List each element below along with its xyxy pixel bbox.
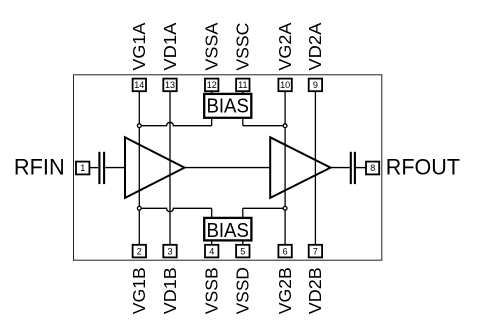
svg-text:11: 11 — [238, 80, 247, 90]
svg-text:1: 1 — [80, 163, 85, 173]
svg-text:VG1B: VG1B — [129, 267, 149, 314]
svg-text:7: 7 — [313, 246, 318, 256]
svg-text:2: 2 — [137, 246, 142, 256]
svg-text:RFIN: RFIN — [14, 155, 65, 180]
svg-text:3: 3 — [167, 246, 172, 256]
svg-text:VD1B: VD1B — [160, 267, 180, 314]
svg-text:8: 8 — [370, 163, 375, 173]
svg-text:VSSB: VSSB — [202, 267, 222, 314]
svg-text:4: 4 — [209, 246, 214, 256]
svg-text:9: 9 — [313, 80, 318, 90]
svg-text:VG1A: VG1A — [129, 22, 149, 70]
svg-text:VG2A: VG2A — [275, 22, 295, 70]
svg-text:BIAS: BIAS — [206, 220, 249, 242]
svg-text:VSSC: VSSC — [233, 23, 253, 71]
svg-text:12: 12 — [207, 80, 217, 90]
svg-text:5: 5 — [240, 246, 245, 256]
svg-text:VG2B: VG2B — [275, 267, 295, 314]
svg-text:13: 13 — [165, 80, 175, 90]
svg-text:VD2B: VD2B — [305, 267, 325, 314]
svg-text:BIAS: BIAS — [206, 96, 249, 118]
svg-text:RFOUT: RFOUT — [386, 155, 461, 180]
svg-text:6: 6 — [283, 246, 288, 256]
svg-text:VSSD: VSSD — [233, 267, 253, 314]
svg-text:10: 10 — [280, 80, 290, 90]
svg-text:VSSA: VSSA — [202, 22, 222, 70]
svg-text:VD1A: VD1A — [160, 22, 180, 70]
svg-text:VD2A: VD2A — [305, 22, 325, 70]
svg-text:14: 14 — [134, 80, 144, 90]
